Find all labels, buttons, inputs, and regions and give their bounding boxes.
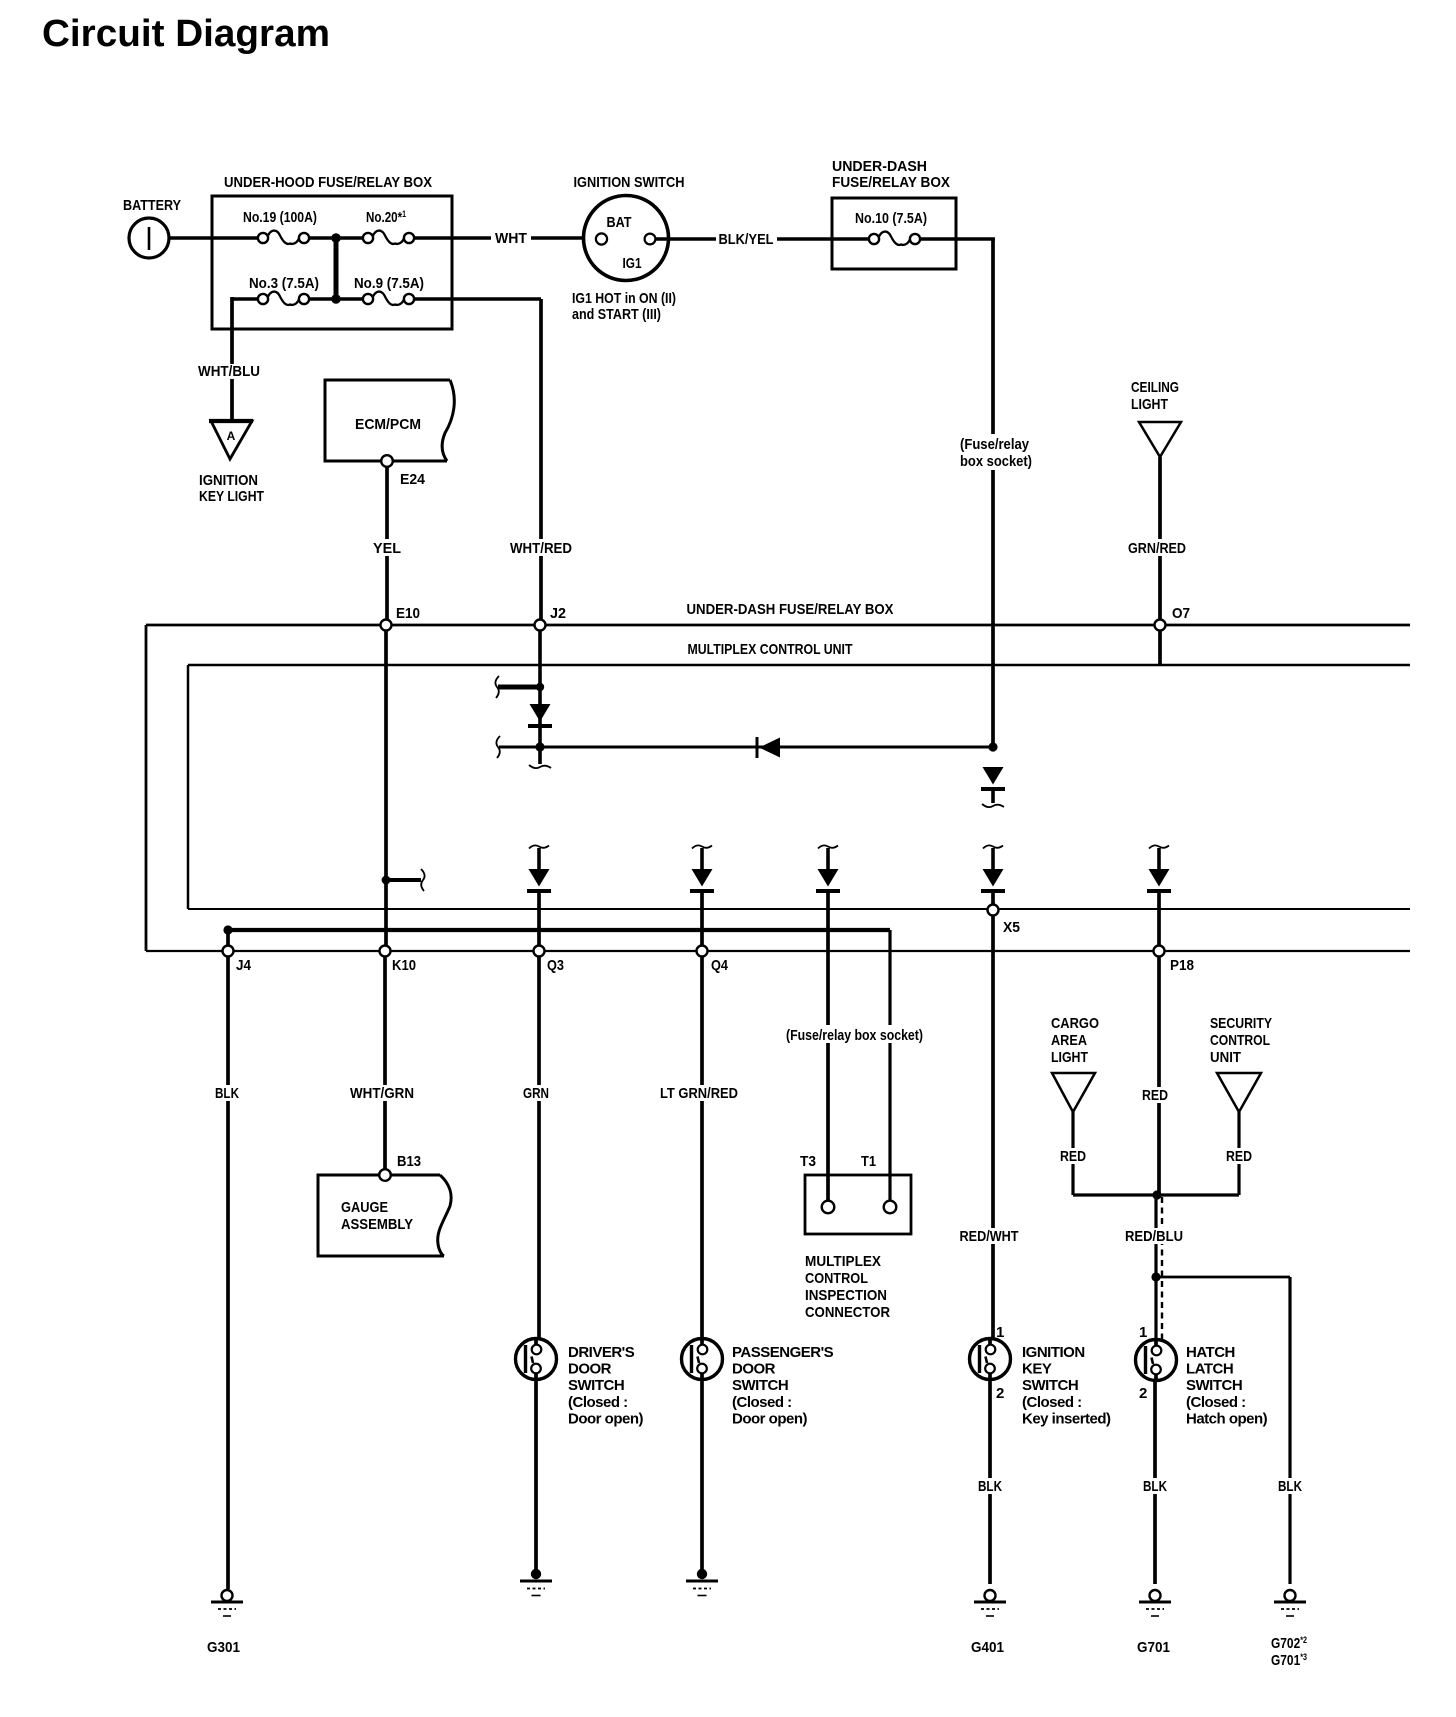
svg-text:(Closed :: (Closed : bbox=[568, 1394, 628, 1411]
svg-text:2: 2 bbox=[996, 1385, 1004, 1402]
svg-text:LIGHT: LIGHT bbox=[1131, 396, 1168, 413]
svg-text:(Closed :: (Closed : bbox=[1022, 1394, 1082, 1411]
svg-text:BLK: BLK bbox=[215, 1085, 239, 1102]
svg-text:E10: E10 bbox=[396, 605, 420, 622]
svg-text:WHT: WHT bbox=[495, 230, 527, 247]
svg-text:G401: G401 bbox=[971, 1639, 1004, 1656]
svg-text:Door open): Door open) bbox=[732, 1410, 807, 1427]
svg-text:DOOR: DOOR bbox=[568, 1361, 612, 1378]
svg-text:GAUGE: GAUGE bbox=[341, 1199, 388, 1216]
svg-text:RED/BLU: RED/BLU bbox=[1125, 1228, 1183, 1245]
svg-text:(Closed :: (Closed : bbox=[732, 1394, 792, 1411]
svg-text:1: 1 bbox=[1139, 1324, 1147, 1341]
svg-text:KEY: KEY bbox=[1022, 1361, 1052, 1378]
svg-text:WHT/RED: WHT/RED bbox=[510, 540, 572, 557]
svg-text:No.3 (7.5A): No.3 (7.5A) bbox=[249, 275, 319, 292]
svg-text:RED: RED bbox=[1226, 1148, 1252, 1165]
svg-text:G301: G301 bbox=[207, 1639, 240, 1656]
svg-text:DOOR: DOOR bbox=[732, 1361, 776, 1378]
svg-text:No.19 (100A): No.19 (100A) bbox=[243, 209, 317, 226]
svg-text:ASSEMBLY: ASSEMBLY bbox=[341, 1216, 413, 1233]
svg-text:RED/WHT: RED/WHT bbox=[960, 1228, 1019, 1245]
svg-text:No.9 (7.5A): No.9 (7.5A) bbox=[354, 275, 424, 292]
svg-text:BLK: BLK bbox=[1278, 1478, 1302, 1495]
svg-text:P18: P18 bbox=[1170, 957, 1194, 974]
svg-text:(Fuse/relay box socket): (Fuse/relay box socket) bbox=[786, 1027, 923, 1044]
svg-text:(Fuse/relay: (Fuse/relay bbox=[960, 436, 1030, 453]
svg-text:GRN: GRN bbox=[523, 1085, 549, 1102]
svg-text:SWITCH: SWITCH bbox=[1022, 1377, 1078, 1394]
svg-text:T1: T1 bbox=[861, 1153, 876, 1170]
svg-text:Hatch open): Hatch open) bbox=[1186, 1410, 1268, 1427]
svg-text:Circuit Diagram: Circuit Diagram bbox=[42, 13, 330, 55]
svg-text:LATCH: LATCH bbox=[1186, 1361, 1233, 1378]
svg-text:LT GRN/RED: LT GRN/RED bbox=[660, 1085, 738, 1102]
svg-text:PASSENGER'S: PASSENGER'S bbox=[732, 1344, 834, 1361]
svg-text:AREA: AREA bbox=[1051, 1032, 1087, 1049]
svg-text:BLK/YEL: BLK/YEL bbox=[719, 231, 774, 248]
svg-text:FUSE/RELAY BOX: FUSE/RELAY BOX bbox=[832, 174, 950, 191]
svg-text:UNDER-DASH: UNDER-DASH bbox=[832, 158, 927, 175]
svg-text:SWITCH: SWITCH bbox=[568, 1377, 624, 1394]
svg-text:BLK: BLK bbox=[978, 1478, 1002, 1495]
svg-text:Q4: Q4 bbox=[711, 957, 729, 974]
svg-text:Door open): Door open) bbox=[568, 1410, 643, 1427]
svg-text:E24: E24 bbox=[400, 471, 426, 488]
svg-text:X5: X5 bbox=[1003, 919, 1020, 936]
svg-text:CONTROL: CONTROL bbox=[805, 1270, 868, 1287]
svg-text:IGNITION SWITCH: IGNITION SWITCH bbox=[574, 174, 685, 191]
svg-text:KEY LIGHT: KEY LIGHT bbox=[199, 488, 264, 505]
svg-text:Q3: Q3 bbox=[547, 957, 564, 974]
svg-text:UNIT: UNIT bbox=[1210, 1049, 1241, 1066]
svg-text:RED: RED bbox=[1060, 1148, 1086, 1165]
svg-text:2: 2 bbox=[1139, 1385, 1147, 1402]
svg-text:G701: G701 bbox=[1137, 1639, 1170, 1656]
svg-text:BATTERY: BATTERY bbox=[123, 197, 181, 214]
svg-text:INSPECTION: INSPECTION bbox=[805, 1287, 887, 1304]
svg-text:DRIVER'S: DRIVER'S bbox=[568, 1344, 635, 1361]
svg-text:CONNECTOR: CONNECTOR bbox=[805, 1304, 890, 1321]
svg-text:YEL: YEL bbox=[373, 540, 401, 557]
svg-text:No.20*1: No.20*1 bbox=[366, 209, 406, 226]
svg-text:CARGO: CARGO bbox=[1051, 1015, 1099, 1032]
svg-text:O7: O7 bbox=[1172, 605, 1190, 622]
svg-text:B13: B13 bbox=[397, 1153, 421, 1170]
svg-text:Key inserted): Key inserted) bbox=[1022, 1410, 1111, 1427]
svg-text:and START (III): and START (III) bbox=[572, 306, 661, 323]
svg-text:MULTIPLEX: MULTIPLEX bbox=[805, 1253, 881, 1270]
svg-text:IG1: IG1 bbox=[623, 255, 642, 272]
svg-text:UNDER-DASH FUSE/RELAY BOX: UNDER-DASH FUSE/RELAY BOX bbox=[687, 601, 894, 618]
svg-text:1: 1 bbox=[996, 1324, 1004, 1341]
svg-text:SWITCH: SWITCH bbox=[1186, 1377, 1242, 1394]
svg-text:CEILING: CEILING bbox=[1131, 379, 1179, 396]
svg-text:box socket): box socket) bbox=[960, 453, 1032, 470]
svg-text:A: A bbox=[227, 429, 236, 443]
svg-text:J2: J2 bbox=[550, 605, 566, 622]
svg-text:WHT/BLU: WHT/BLU bbox=[198, 363, 260, 380]
svg-text:IGNITION: IGNITION bbox=[199, 472, 258, 489]
svg-text:MULTIPLEX CONTROL UNIT: MULTIPLEX CONTROL UNIT bbox=[688, 641, 853, 658]
svg-text:SWITCH: SWITCH bbox=[732, 1377, 788, 1394]
svg-text:IG1 HOT in ON (II): IG1 HOT in ON (II) bbox=[572, 290, 676, 307]
svg-text:GRN/RED: GRN/RED bbox=[1128, 540, 1186, 557]
svg-text:WHT/GRN: WHT/GRN bbox=[350, 1085, 414, 1102]
svg-text:RED: RED bbox=[1142, 1087, 1168, 1104]
svg-text:J4: J4 bbox=[236, 957, 252, 974]
svg-text:BLK: BLK bbox=[1143, 1478, 1167, 1495]
svg-text:CONTROL: CONTROL bbox=[1210, 1032, 1270, 1049]
svg-text:UNDER-HOOD FUSE/RELAY BOX: UNDER-HOOD FUSE/RELAY BOX bbox=[224, 174, 432, 191]
svg-text:No.10 (7.5A): No.10 (7.5A) bbox=[855, 210, 927, 227]
svg-text:IGNITION: IGNITION bbox=[1022, 1344, 1085, 1361]
svg-text:HATCH: HATCH bbox=[1186, 1344, 1235, 1361]
svg-text:BAT: BAT bbox=[607, 214, 632, 231]
svg-text:K10: K10 bbox=[392, 957, 416, 974]
svg-text:LIGHT: LIGHT bbox=[1051, 1049, 1088, 1066]
svg-text:SECURITY: SECURITY bbox=[1210, 1015, 1272, 1032]
svg-text:ECM/PCM: ECM/PCM bbox=[355, 416, 421, 433]
svg-text:(Closed :: (Closed : bbox=[1186, 1394, 1246, 1411]
svg-text:T3: T3 bbox=[800, 1153, 816, 1170]
